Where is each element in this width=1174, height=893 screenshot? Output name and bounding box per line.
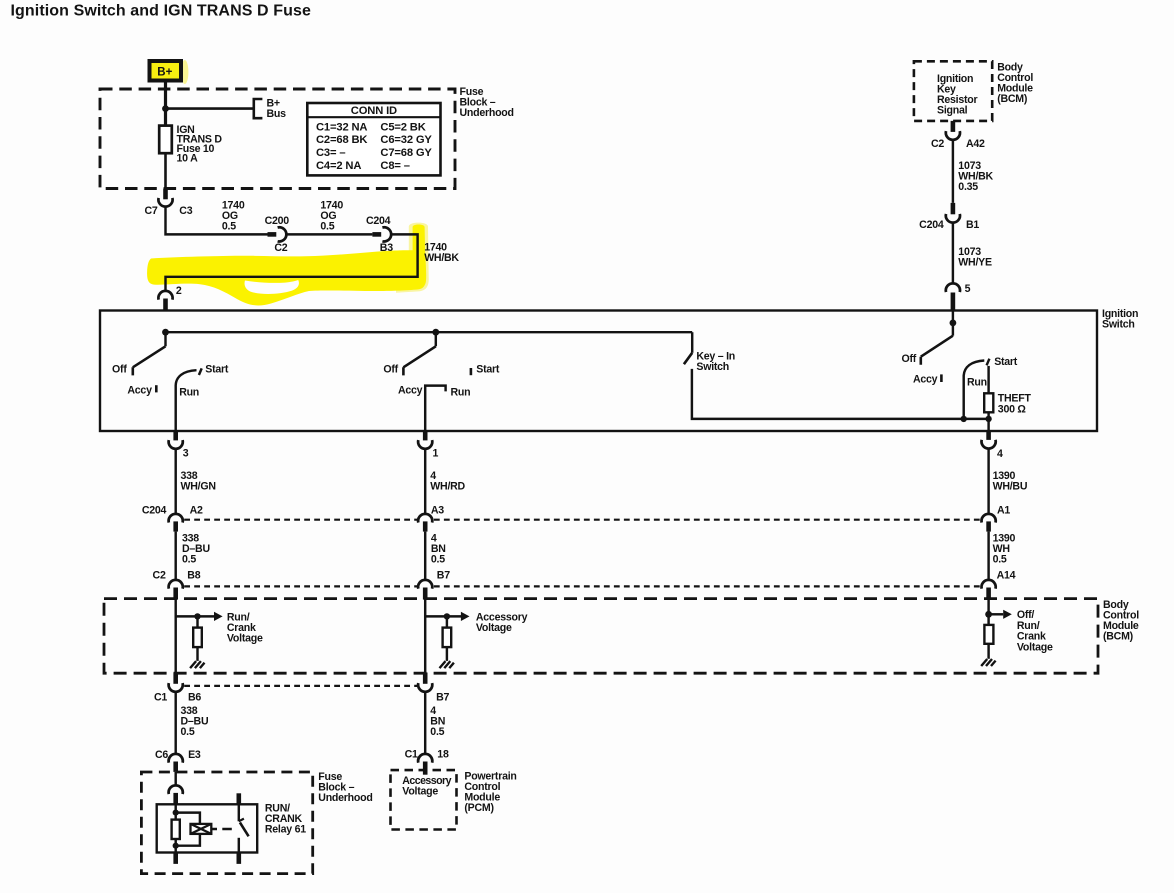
svg-text:18: 18	[437, 749, 449, 761]
svg-text:4: 4	[997, 448, 1003, 460]
svg-text:C7: C7	[144, 205, 157, 217]
svg-text:Switch: Switch	[696, 361, 729, 373]
svg-text:B7: B7	[437, 570, 450, 582]
svg-text:C2=68 BK: C2=68 BK	[316, 134, 367, 146]
svg-text:C2: C2	[274, 242, 287, 254]
svg-text:300 Ω: 300 Ω	[998, 404, 1027, 416]
svg-text:C7=68 GY: C7=68 GY	[380, 147, 432, 159]
svg-text:Off: Off	[901, 353, 916, 365]
svg-text:Start: Start	[994, 356, 1018, 368]
svg-text:B3: B3	[380, 242, 393, 254]
svg-text:A3: A3	[431, 504, 444, 516]
svg-text:C204: C204	[366, 215, 391, 227]
svg-text:1: 1	[433, 447, 439, 459]
svg-text:THEFT: THEFT	[998, 392, 1032, 404]
svg-text:C8= –: C8= –	[380, 160, 409, 172]
svg-text:C3= –: C3= –	[316, 147, 345, 159]
svg-text:C3: C3	[179, 205, 192, 217]
svg-text:(BCM): (BCM)	[997, 93, 1027, 105]
svg-text:0.5: 0.5	[320, 220, 334, 232]
svg-text:A42: A42	[966, 138, 985, 150]
svg-text:WH/GN: WH/GN	[181, 480, 216, 492]
svg-text:Ignition Switch and IGN TRANS: Ignition Switch and IGN TRANS D Fuse	[11, 2, 312, 19]
svg-text:5: 5	[965, 283, 971, 295]
svg-text:B+: B+	[157, 66, 172, 78]
svg-text:WH/BK: WH/BK	[424, 252, 459, 264]
svg-text:Signal: Signal	[937, 105, 968, 117]
svg-text:Start: Start	[205, 363, 229, 375]
svg-text:0.5: 0.5	[222, 220, 236, 232]
svg-text:10 A: 10 A	[177, 153, 199, 165]
svg-text:Underhood: Underhood	[318, 792, 372, 804]
svg-text:(PCM): (PCM)	[464, 802, 493, 814]
svg-text:C1=32 NA: C1=32 NA	[316, 121, 367, 133]
svg-text:Switch: Switch	[1102, 318, 1135, 330]
svg-text:B7: B7	[436, 691, 449, 703]
svg-text:CONN ID: CONN ID	[351, 105, 397, 117]
svg-text:Voltage: Voltage	[1017, 641, 1053, 653]
svg-text:WH/RD: WH/RD	[430, 480, 465, 492]
svg-text:B8: B8	[187, 570, 200, 582]
svg-text:Off: Off	[383, 363, 398, 375]
svg-text:Voltage: Voltage	[476, 622, 512, 634]
svg-text:B6: B6	[188, 691, 201, 703]
svg-text:Run: Run	[451, 387, 471, 399]
svg-text:A2: A2	[190, 504, 203, 516]
svg-text:0.5: 0.5	[431, 554, 445, 566]
svg-text:C204: C204	[919, 219, 944, 231]
svg-text:C2: C2	[931, 138, 944, 150]
svg-text:Voltage: Voltage	[227, 632, 263, 644]
svg-text:Off: Off	[112, 363, 127, 375]
svg-text:C204: C204	[142, 504, 167, 516]
svg-text:Bus: Bus	[267, 108, 287, 120]
svg-text:Accy: Accy	[913, 373, 938, 385]
svg-text:Underhood: Underhood	[460, 107, 514, 119]
svg-text:C4=2 NA: C4=2 NA	[316, 160, 361, 172]
svg-text:C6=32 GY: C6=32 GY	[380, 134, 432, 146]
svg-text:3: 3	[183, 447, 189, 459]
svg-text:Run: Run	[967, 376, 987, 388]
svg-text:0.5: 0.5	[430, 726, 444, 738]
svg-text:A14: A14	[997, 570, 1016, 582]
svg-text:Voltage: Voltage	[402, 785, 438, 797]
svg-text:C6: C6	[155, 749, 168, 761]
svg-text:C1: C1	[405, 749, 418, 761]
svg-text:C1: C1	[154, 691, 167, 703]
svg-text:2: 2	[176, 285, 182, 297]
svg-text:Relay 61: Relay 61	[265, 823, 306, 835]
svg-text:Accy: Accy	[398, 385, 423, 397]
svg-text:C5=2 BK: C5=2 BK	[380, 121, 425, 133]
svg-text:WH/YE: WH/YE	[958, 256, 992, 268]
svg-text:C2: C2	[153, 570, 166, 582]
svg-text:A1: A1	[997, 504, 1010, 516]
svg-text:E3: E3	[188, 749, 201, 761]
svg-text:Accy: Accy	[127, 385, 152, 397]
svg-text:(BCM): (BCM)	[1103, 631, 1133, 643]
svg-text:C200: C200	[265, 215, 290, 227]
svg-text:B1: B1	[966, 219, 979, 231]
svg-text:WH/BU: WH/BU	[993, 480, 1028, 492]
svg-text:Run: Run	[179, 387, 199, 399]
svg-text:0.5: 0.5	[182, 554, 196, 566]
svg-text:0.35: 0.35	[958, 181, 978, 193]
svg-text:Start: Start	[476, 363, 500, 375]
svg-text:0.5: 0.5	[993, 554, 1007, 566]
svg-text:0.5: 0.5	[181, 726, 195, 738]
